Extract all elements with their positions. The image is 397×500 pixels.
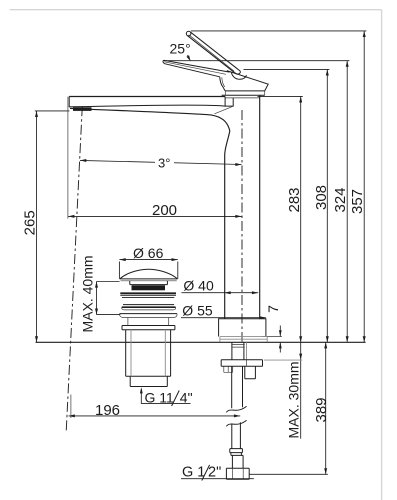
washer 3 dished: [120, 313, 177, 315]
spout tip face: [68, 97, 70, 108]
raised lever tip ball: [186, 31, 191, 36]
supply pipe lower: [232, 422, 241, 448]
supply rod: [232, 366, 243, 408]
svg-text:25°: 25°: [170, 41, 191, 57]
svg-text:G 11: G 11: [145, 390, 175, 406]
compression ring: [230, 449, 243, 453]
stream centerline (3 deg): [66, 106, 82, 431]
dimension line 357: [363, 31, 366, 342]
svg-text:3°: 3°: [158, 155, 170, 170]
svg-text:MAX. 30mm: MAX. 30mm: [286, 361, 302, 438]
dimension diameter 55: [181, 316, 266, 319]
closed lever bottom edge: [165, 64, 220, 77]
extension line 389 bottom: [249, 473, 328, 475]
svg-text:Ø 66: Ø 66: [133, 245, 164, 261]
body cap top: [222, 94, 265, 96]
pipe break lower: [226, 420, 246, 426]
hex nut faces: [233, 468, 244, 479]
closed lever inner line: [164, 62, 226, 75]
svg-text:G 1: G 1: [182, 465, 205, 481]
base flange: [219, 319, 266, 337]
svg-text:265: 265: [22, 210, 39, 235]
shank second edge: [246, 342, 248, 360]
extension line 308 (from lever joint): [244, 68, 330, 70]
mounting nut: [245, 366, 256, 379]
dome base: [120, 278, 178, 280]
spout junction seam: [225, 97, 233, 107]
raised lever top edge: [191, 32, 239, 70]
dimension line 283: [299, 96, 302, 342]
dome neck: [130, 281, 168, 285]
dimension line 308: [326, 69, 329, 342]
svg-text:324: 324: [332, 187, 349, 212]
body centerline: [241, 110, 243, 342]
extension line washer top (gray): [264, 359, 302, 361]
extension line 324 (from closed lever tip): [164, 60, 350, 62]
raised lever inner line: [189, 35, 234, 72]
dimension MAX. 30mm: [299, 342, 302, 438]
lever joint dome: [231, 73, 246, 80]
svg-text:200: 200: [152, 202, 177, 219]
dimension line 389: [324, 342, 327, 474]
svg-text:Ø 55: Ø 55: [182, 303, 213, 319]
dimension diameter 40: [182, 291, 259, 294]
svg-text:MAX. 40mm: MAX. 40mm: [79, 255, 95, 332]
dimension 3 degrees: [80, 159, 242, 166]
svg-text:283: 283: [286, 187, 303, 212]
frame top border: [10, 9, 382, 11]
svg-text:7: 7: [265, 305, 281, 313]
spout underside upper line: [69, 105, 225, 107]
drain body: [126, 330, 171, 376]
fitting stem: [231, 453, 243, 469]
drain body inner lines: [131, 330, 165, 376]
raised lever bottom cap: [235, 70, 241, 74]
dimension 7: [262, 326, 282, 353]
spout underside lower line and body left edge: [70, 108, 230, 318]
neck left edge: [220, 77, 226, 91]
head to cap verticals: [225, 91, 264, 95]
drain neck below washers: [128, 318, 169, 326]
closed lever tip: [163, 60, 165, 64]
aerator insert: [73, 107, 92, 111]
hex nut G 1/2: [226, 468, 249, 479]
mounting plate: [221, 360, 262, 366]
drain tailpipe: [130, 376, 167, 386]
svg-text:389: 389: [313, 397, 330, 422]
frame right border: [381, 10, 383, 500]
gasket band: [132, 285, 166, 290]
svg-text:196: 196: [95, 402, 120, 419]
junction inner fillet: [215, 106, 234, 114]
svg-text:2": 2": [208, 465, 221, 481]
svg-text:Ø 40: Ø 40: [183, 278, 214, 294]
extension line 357 (from raised lever tip): [191, 30, 367, 32]
spout top edge: [69, 96, 225, 98]
label G 11/4 with leader: [140, 387, 193, 406]
aerator top line: [69, 106, 89, 108]
body right edge: [259, 95, 261, 319]
shank collar lines: [231, 344, 244, 347]
svg-text:4": 4": [180, 390, 193, 406]
body cap inner line: [225, 97, 260, 99]
mixer head: [225, 71, 268, 91]
extension line 265 (from spout tip): [35, 110, 70, 112]
dimension 200: [68, 97, 242, 219]
closed lever top edge: [164, 60, 230, 72]
dome base second line: [121, 280, 177, 282]
washer 2: [123, 304, 174, 306]
dimension 196: [69, 395, 241, 419]
svg-text:357: 357: [349, 189, 366, 214]
dimension MAX. 40mm: [95, 282, 120, 315]
neck inner line: [222, 77, 225, 87]
pipe break upper: [226, 406, 246, 412]
label G 1/2 with underline: [181, 465, 254, 481]
dimension line 265: [35, 111, 38, 342]
mounting plate left tab: [224, 366, 233, 372]
leader 25 degrees: [187, 55, 190, 60]
raised lever bottom edge: [188, 36, 235, 73]
dimension diameter 66: [119, 258, 177, 279]
washer 1: [120, 292, 176, 294]
deck line: [36, 341, 366, 343]
dimension line 324: [346, 61, 349, 343]
svg-text:308: 308: [313, 185, 330, 210]
locking ring: [122, 326, 175, 330]
threaded shank: [232, 342, 244, 360]
drain dome cap: [120, 269, 178, 279]
mounting plate inner line: [245, 360, 247, 366]
base plate: [220, 337, 267, 342]
extension line 283 (from body top): [258, 95, 303, 97]
